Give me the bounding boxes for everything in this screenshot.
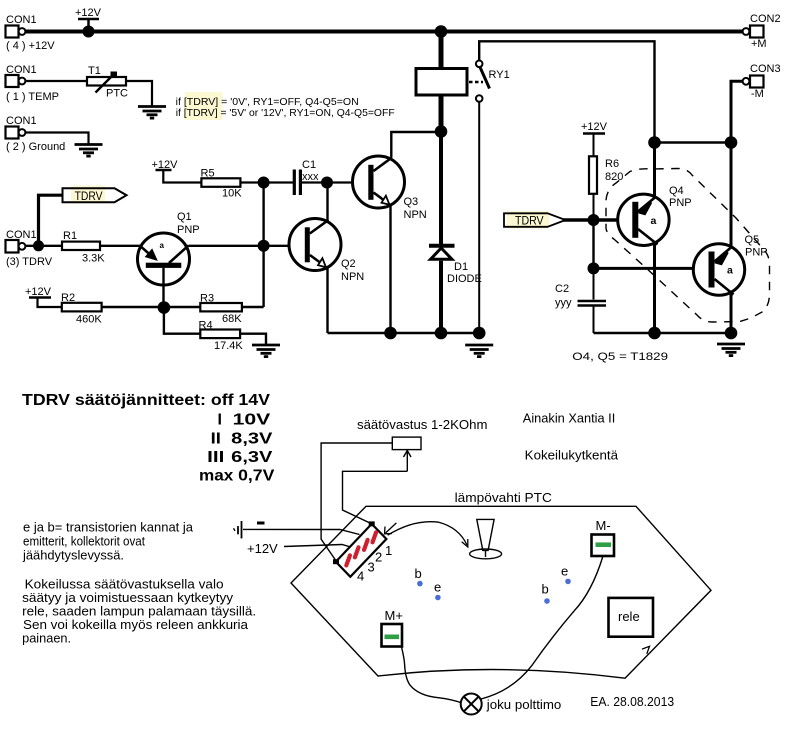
- svg-text:+12V: +12V: [25, 286, 52, 298]
- wire Q3 collector to relay node: [391, 132, 441, 158]
- motor terminal M+: [382, 608, 403, 647]
- ground T1: [138, 107, 166, 119]
- wire +12V to connector: [284, 545, 361, 551]
- svg-text:a: a: [651, 215, 657, 227]
- label paragraph 1: [22, 520, 194, 563]
- svg-text:8,3V: 8,3V: [231, 431, 273, 448]
- svg-text:M+: M+: [385, 608, 403, 623]
- node Q1-Q2 junction: [258, 240, 270, 252]
- svg-text:emitterit, kollektorit ovat: emitterit, kollektorit ovat: [23, 534, 145, 549]
- wire Q1 collector to node: [189, 245, 265, 247]
- ground CON1-2: [75, 145, 103, 157]
- connector CON1 pin 3: [6, 229, 53, 268]
- power +12V top: [75, 7, 102, 31]
- svg-text:M-: M-: [596, 518, 611, 533]
- wire Q2 collector up: [326, 183, 328, 222]
- node R6-TDRV junction: [588, 214, 600, 226]
- svg-text:PNP: PNP: [669, 197, 692, 209]
- wire R2 to node: [102, 306, 164, 308]
- wire Q4 emitter up: [653, 143, 656, 199]
- wire Q5 emitter up: [730, 143, 733, 249]
- wire TDRV flag to input node: [39, 195, 63, 246]
- node Q3 emitter bus: [384, 327, 397, 340]
- wire CON1-1 to T1: [25, 80, 87, 82]
- node Q4 rail junction: [648, 136, 661, 149]
- svg-text:Q1: Q1: [177, 211, 192, 223]
- svg-text:T1: T1: [88, 65, 101, 77]
- wire node to Q2 base: [264, 245, 290, 247]
- wire Q3 emitter down: [389, 206, 391, 333]
- svg-text:Q4: Q4: [669, 185, 684, 197]
- wire joining Q4/Q5 rails: [655, 141, 732, 143]
- transistor Q5 PNP: [693, 234, 767, 295]
- node relay-D1 junction: [435, 125, 448, 138]
- svg-text:e ja b= transistorien kannat j: e ja b= transistorien kannat ja: [23, 520, 194, 535]
- resistor R4 17.4K: [164, 308, 266, 353]
- transistor Q4 PNP: [618, 185, 692, 246]
- wire battery minus to connector: [243, 529, 360, 534]
- svg-text:3: 3: [368, 560, 375, 575]
- wire trimmer left to connector: [321, 443, 392, 562]
- curved arrow connector to PTC: [388, 522, 468, 547]
- svg-text:+12V: +12V: [581, 121, 608, 133]
- svg-text:lämpövahti PTC: lämpövahti PTC: [455, 490, 552, 505]
- resistor R6 820: [589, 156, 623, 194]
- svg-text:TDRV: TDRV: [75, 189, 103, 203]
- transistor Q1 PNP: [138, 211, 200, 285]
- node C1-Q2 junction: [321, 177, 333, 189]
- svg-text:b: b: [542, 582, 549, 597]
- node R5-C1 junction: [258, 177, 270, 189]
- dashed outline heatsink Q4-Q5: [606, 169, 770, 323]
- svg-text:b: b: [415, 566, 422, 581]
- svg-text:CON1: CON1: [6, 115, 37, 127]
- trimmer rectangle: [392, 437, 421, 450]
- arrow into connector: [385, 523, 397, 534]
- wire contact-top to Q4/Q5 rail: [479, 41, 654, 142]
- PTC funnel: [470, 519, 502, 558]
- svg-text:R1: R1: [63, 230, 77, 242]
- wire Q2 emitter down: [326, 267, 328, 333]
- power +12V R5: [152, 159, 202, 183]
- svg-text:O4, Q5 = T1829: O4, Q5 = T1829: [572, 351, 668, 363]
- arrow into trimmer: [404, 451, 412, 472]
- wire right bottom bus: [594, 332, 732, 334]
- node b dot left: [415, 566, 423, 586]
- wire center ground bus: [328, 332, 480, 334]
- motor terminal M-: [592, 518, 615, 556]
- svg-text:+12V: +12V: [75, 7, 102, 19]
- svg-text:TDRV säätöjännitteet: off 14V: TDRV säätöjännitteet: off 14V: [22, 392, 270, 409]
- svg-text:Ainakin Xantia II: Ainakin Xantia II: [523, 411, 616, 426]
- resistor R2 460K: [61, 292, 102, 326]
- wire R5 to C1: [240, 181, 293, 183]
- wire M- to lamp: [481, 556, 603, 699]
- wire C1 to Q3 base: [302, 181, 354, 183]
- svg-text:17.4K: 17.4K: [214, 340, 243, 352]
- svg-text:EA. 28.08.2013: EA. 28.08.2013: [590, 694, 674, 709]
- svg-text:( 2 ) Ground: ( 2 ) Ground: [6, 141, 65, 153]
- wire TDRV flag to Q4 base: [563, 218, 618, 221]
- node rail-12V junction: [83, 26, 95, 38]
- svg-text:R6: R6: [605, 158, 619, 170]
- node Q4 collector bus: [648, 327, 661, 340]
- node R2-R3-Q1 junction: [158, 301, 171, 314]
- svg-text:xxx: xxx: [302, 171, 319, 183]
- svg-text:( 4 ) +12V: ( 4 ) +12V: [6, 40, 55, 52]
- svg-text:NPN: NPN: [404, 209, 427, 221]
- resistor R3 68K: [164, 293, 264, 326]
- svg-text:NPN: NPN: [341, 271, 364, 283]
- svg-text:a: a: [727, 265, 733, 277]
- svg-text:D1: D1: [454, 261, 468, 273]
- svg-text:6,3V: 6,3V: [231, 449, 273, 466]
- svg-text:DIODE: DIODE: [447, 273, 482, 285]
- transistor Q2 NPN: [289, 219, 364, 284]
- svg-text:max: max: [199, 468, 233, 485]
- node bus ground: [473, 327, 486, 340]
- svg-text:0,7V: 0,7V: [238, 468, 275, 485]
- connector CON1 pin 4: [6, 14, 56, 52]
- svg-text:+12V: +12V: [247, 541, 278, 556]
- wire R6 to TDRV node: [593, 194, 595, 220]
- capacitor C1 xxx: [293, 159, 319, 195]
- svg-text:TDRV: TDRV: [515, 214, 544, 228]
- svg-text:rele: rele: [618, 609, 640, 624]
- node e dot right: [561, 564, 571, 585]
- rele box: [609, 598, 654, 637]
- wire contact-bottom to ground bus: [478, 102, 480, 333]
- svg-text:460K: 460K: [76, 314, 102, 326]
- wire Q5 base: [594, 267, 695, 270]
- wire R1 to Q1: [100, 245, 140, 247]
- svg-text:PNP: PNP: [177, 224, 200, 236]
- svg-text:-M: -M: [751, 88, 764, 100]
- connector CON3: [743, 63, 781, 100]
- svg-text:CON3: CON3: [750, 63, 781, 75]
- flag TDRV right: [504, 211, 566, 229]
- label paragraph 2: [22, 577, 256, 646]
- node D1 bus: [435, 327, 448, 340]
- wire CON1-3 to R1: [25, 245, 62, 247]
- wire trimmer wiper to connector: [343, 471, 408, 523]
- battery minus: [234, 521, 265, 538]
- resistor R5 10K: [201, 168, 243, 200]
- svg-text:painaen.: painaen.: [22, 631, 71, 646]
- svg-text:e: e: [561, 564, 568, 579]
- node TDRV input junction: [33, 240, 44, 251]
- relay RY1 contact: [469, 61, 510, 102]
- lamp joku polttimo: [461, 694, 562, 715]
- ground center bus: [465, 345, 493, 357]
- svg-text:10K: 10K: [222, 188, 242, 200]
- capacitor C2 yyy: [555, 268, 606, 333]
- svg-text:Q3: Q3: [404, 196, 419, 208]
- svg-text:+M: +M: [751, 38, 767, 50]
- svg-text:RY1: RY1: [489, 69, 510, 81]
- svg-text:PTC: PTC: [106, 88, 128, 100]
- svg-text:III: III: [207, 449, 224, 466]
- svg-text:C2: C2: [555, 283, 569, 295]
- svg-text:säätövastus 1-2KOhm: säätövastus 1-2KOhm: [357, 417, 488, 432]
- svg-text:4: 4: [357, 569, 364, 584]
- svg-text:Q5: Q5: [745, 234, 760, 246]
- resistor R1 3.3K: [62, 230, 105, 265]
- transistor Q3 NPN: [353, 156, 427, 221]
- node rail-relay junction: [435, 25, 448, 38]
- ground Q5: [717, 344, 745, 356]
- node Q5 base junction: [588, 262, 600, 274]
- svg-text:68K: 68K: [222, 313, 242, 325]
- svg-text:820: 820: [605, 171, 623, 183]
- svg-text:Q2: Q2: [341, 258, 356, 270]
- svg-text:CON2: CON2: [750, 13, 781, 25]
- connector CON1 pin 1: [6, 64, 59, 103]
- node e dot left: [434, 580, 441, 601]
- power +12V R6: [581, 121, 608, 156]
- wire Q5 collector down: [730, 292, 733, 333]
- connector 4-pin: [333, 521, 392, 583]
- note TDRV condition text: [176, 92, 395, 120]
- wire Q1 base down: [162, 268, 164, 308]
- svg-text:2: 2: [375, 550, 382, 565]
- thermistor T1 PTC: [87, 65, 128, 100]
- svg-text:PNP: PNP: [745, 247, 768, 259]
- wire CON3 to Q5 collector rail: [731, 81, 743, 142]
- svg-text:(3) TDRV: (3) TDRV: [6, 256, 53, 268]
- svg-text:yyy: yyy: [555, 297, 572, 309]
- connector CON2: [743, 13, 781, 50]
- relay RY1 coil: [416, 32, 467, 132]
- node b dot right: [542, 582, 550, 604]
- wire vertical R5 node to R3 node: [262, 183, 264, 308]
- wire M+ to lamp: [401, 647, 460, 703]
- wire main +12V rail: [25, 30, 743, 34]
- flag TDRV left: [63, 186, 127, 204]
- svg-text:C1: C1: [302, 159, 316, 171]
- wire T1 to ground: [126, 81, 152, 106]
- svg-text:e: e: [434, 580, 441, 595]
- wire TDRV node down to Q5 base node: [592, 220, 594, 268]
- node Q5 collector bus: [725, 327, 738, 340]
- diode D1: [429, 132, 482, 334]
- svg-text:CON1: CON1: [6, 14, 37, 26]
- svg-text:( 1 ) TEMP: ( 1 ) TEMP: [6, 91, 59, 103]
- svg-text:if [TDRV] = '5V' or '12V', RY1: if [TDRV] = '5V' or '12V', RY1=ON, Q4-Q5…: [176, 107, 395, 119]
- svg-text:3.3K: 3.3K: [82, 253, 105, 265]
- svg-text:I: I: [218, 412, 222, 429]
- svg-text:1: 1: [385, 543, 392, 558]
- node Q5 rail junction: [725, 136, 738, 149]
- ground R4: [252, 345, 280, 357]
- svg-text:joku polttimo: joku polttimo: [486, 697, 562, 712]
- arrowhead on hexagon edge: [642, 646, 650, 654]
- svg-text:Kokeilukytkentä: Kokeilukytkentä: [525, 448, 619, 463]
- svg-text:10V: 10V: [233, 412, 271, 429]
- connector CON1 pin 2: [6, 115, 66, 153]
- hexagon board outline: [291, 506, 711, 678]
- wire Q4 collector down: [653, 242, 656, 333]
- power +12V R2: [25, 286, 62, 307]
- wire CON1-2 to ground: [25, 133, 89, 144]
- svg-text:II: II: [211, 431, 221, 448]
- svg-text:a: a: [160, 241, 165, 250]
- svg-text:jäähdytyslevyssä.: jäähdytyslevyssä.: [22, 548, 124, 563]
- label voltage table: [22, 392, 275, 485]
